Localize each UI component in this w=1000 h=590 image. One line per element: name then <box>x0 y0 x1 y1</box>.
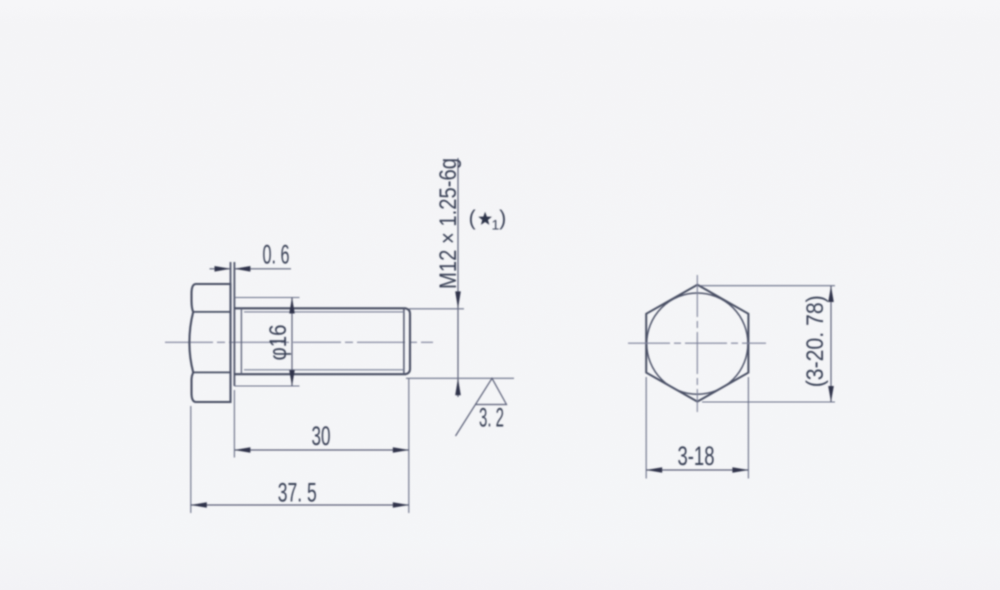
arrow dim37.5 right (points right) <box>393 502 409 508</box>
thread minor diameter line top <box>244 311 404 313</box>
thread runout line <box>240 308 242 374</box>
arrow phi16 bottom (points down) <box>289 370 295 386</box>
washer face right line / 0.6 extension <box>233 262 235 386</box>
dim 3-18 extension left <box>645 377 647 479</box>
dimension texts <box>263 240 715 508</box>
arrow phi16 top (points up) <box>289 298 295 314</box>
arrow (3-20.78) top (points up) <box>828 286 834 302</box>
roughness symbol triangle and tail <box>456 378 507 436</box>
arrow 0.6 right (points left) <box>234 266 250 272</box>
arrow 0.6 left (points right) <box>215 266 231 272</box>
arrow dim37.5 left (points left) <box>191 502 207 508</box>
arrow dim30 right (points right) <box>393 447 409 453</box>
dim (3-20.78) extension top <box>700 285 835 287</box>
hex head outline (side view) <box>189 284 230 402</box>
hex vertical centerline <box>696 275 698 412</box>
dim (3-20.78) line <box>830 286 832 402</box>
M12 extension line top (shank top extended) <box>409 308 464 310</box>
arrow (3-20.78) bottom (points down) <box>828 386 834 402</box>
dim 0.6 right shelf line <box>234 268 291 270</box>
dim 30 line <box>234 449 408 451</box>
arrow dim30 left (points left) <box>234 447 250 453</box>
dim 3-18 line <box>646 469 748 471</box>
dim 30/37.5 extension right (bolt end extended) <box>408 379 410 514</box>
shank outline <box>234 308 410 374</box>
dim 30 extension left (washer face extended) <box>233 390 235 458</box>
arrow M12 upper (points down onto line) <box>455 291 461 308</box>
star glyph <box>478 212 492 225</box>
M12 dimension line vertical <box>457 158 459 397</box>
dim 3-18 extension right <box>747 377 749 479</box>
phi16 extension line top <box>234 297 299 299</box>
washer face left line / 0.6 extension <box>230 262 232 402</box>
arrow 3-18 right (points right) <box>732 467 748 473</box>
head facet divider upper <box>193 311 230 313</box>
thread minor diameter line bottom <box>244 369 404 371</box>
dim (3-20.78) extension bottom <box>702 401 835 403</box>
arrow M12 lower (points up onto line) <box>455 378 461 395</box>
chamfer circle <box>647 293 748 394</box>
arrowheads <box>191 266 834 508</box>
dim 0.6 left arrow line <box>210 268 231 270</box>
dim 37.5 line <box>191 504 409 506</box>
hexagon head end view <box>646 285 748 402</box>
head facet divider lower <box>193 371 230 373</box>
arrow 3-18 left (points left) <box>646 467 662 473</box>
hex horizontal centerline <box>628 342 766 344</box>
phi16 dimension line <box>291 298 293 387</box>
centerline of bolt axis (left view) <box>165 341 433 343</box>
phi16 extension line bottom <box>234 385 299 387</box>
end chamfer line <box>403 308 405 374</box>
M12 / roughness extension line bottom <box>406 377 514 379</box>
dim 37.5 extension left (head face extended) <box>190 406 192 513</box>
